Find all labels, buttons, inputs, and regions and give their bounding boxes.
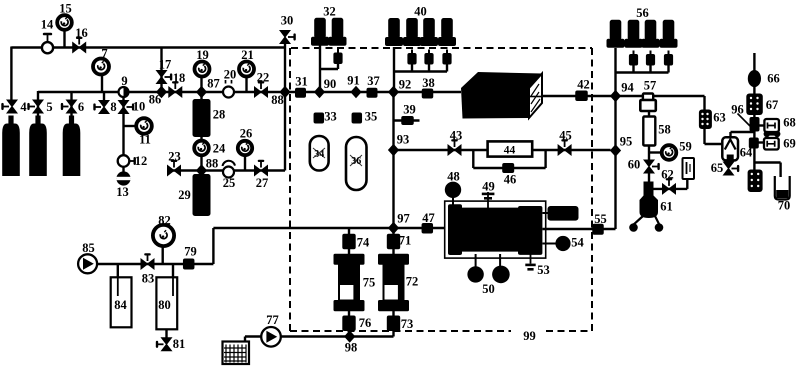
svg-text:56: 56 <box>636 6 649 20</box>
svg-text:55: 55 <box>594 212 607 226</box>
gauge 19 <box>195 62 210 77</box>
sample bottle 40a <box>385 18 403 46</box>
wire to beaker 70 <box>754 163 780 178</box>
dashed boundary box 99 <box>290 48 592 331</box>
gauge 7 <box>93 59 109 75</box>
svg-text:68: 68 <box>783 116 796 130</box>
svg-text:65: 65 <box>711 161 724 175</box>
svg-text:49: 49 <box>482 180 495 194</box>
wire right vent line <box>753 53 755 170</box>
svg-text:24: 24 <box>213 142 226 156</box>
drying column 58 <box>643 117 655 146</box>
bubbler 57 <box>640 94 656 112</box>
svg-text:31: 31 <box>295 75 308 89</box>
wire top header <box>11 46 285 48</box>
svg-text:70: 70 <box>778 199 791 213</box>
wire 64 outlet <box>731 132 755 139</box>
valve 4 <box>1 100 17 113</box>
svg-text:39: 39 <box>403 103 416 117</box>
svg-text:88: 88 <box>206 157 219 171</box>
gas cylinder 3 <box>63 116 81 177</box>
svg-text:94: 94 <box>621 81 634 95</box>
svg-text:86: 86 <box>149 93 162 107</box>
gauge 24 <box>194 141 209 156</box>
svg-text:75: 75 <box>363 276 376 290</box>
svg-text:35: 35 <box>365 110 378 124</box>
sample bottle 40d <box>438 18 456 46</box>
valve 10 <box>119 101 135 114</box>
svg-text:57: 57 <box>644 79 657 93</box>
node 87 <box>196 86 207 98</box>
wire trap-A stubs <box>348 228 350 337</box>
node 95 <box>610 144 621 156</box>
wire valve-8 stub <box>103 92 105 100</box>
valve 81 <box>156 338 172 351</box>
gauge 15 <box>57 15 72 30</box>
heater 51 <box>543 206 579 221</box>
valve 83 <box>141 253 154 269</box>
fitting 79 <box>183 259 195 270</box>
wire gauge-7 stub <box>101 74 103 92</box>
reaction cell 49b <box>445 201 546 258</box>
fitting 56f <box>646 51 655 66</box>
wire cell outlet <box>543 228 616 230</box>
svg-text:76: 76 <box>359 316 372 330</box>
svg-text:77: 77 <box>266 313 279 327</box>
svg-text:21: 21 <box>241 48 254 62</box>
trap 63 <box>699 110 712 130</box>
flask 34 <box>310 136 329 171</box>
node 86 <box>156 86 167 98</box>
wire trap-B stubs <box>392 228 394 337</box>
ground 53 <box>525 254 535 271</box>
sample bottle 32a <box>311 18 329 46</box>
water vessel 84 <box>111 277 132 327</box>
wire 69 stub <box>757 141 765 143</box>
wire lower sample line <box>168 169 285 171</box>
svg-text:96: 96 <box>731 103 744 117</box>
svg-text:16: 16 <box>75 26 88 40</box>
scrubber bottle <box>748 170 763 193</box>
regulator 14 <box>42 33 53 54</box>
fitting 37 <box>367 88 378 98</box>
feedthrough 49 <box>482 192 495 208</box>
fitting 40g <box>442 50 451 65</box>
valve 45 <box>558 139 571 155</box>
svg-text:37: 37 <box>367 74 380 88</box>
wire to pump 13 <box>122 166 124 173</box>
fitting 47 <box>422 223 434 234</box>
gas purifier 44 <box>488 141 533 156</box>
wire furnace outlet <box>530 95 705 97</box>
svg-text:22: 22 <box>257 71 270 85</box>
wire gauge-21 stub <box>245 76 247 92</box>
carrier bottle 56c <box>642 20 660 48</box>
valve 60 <box>644 160 660 173</box>
svg-text:58: 58 <box>658 123 671 137</box>
svg-text:59: 59 <box>679 140 692 154</box>
gauge 59 <box>662 145 677 160</box>
svg-text:30: 30 <box>281 14 294 28</box>
gas cylinder 1 <box>2 116 20 177</box>
wire column-28 link <box>200 92 202 142</box>
svg-text:92: 92 <box>399 78 412 92</box>
adsorption column 29 <box>193 174 211 216</box>
svg-text:42: 42 <box>577 78 590 92</box>
fitting 56g <box>664 51 673 66</box>
svg-text:25: 25 <box>223 176 236 190</box>
valve 17 <box>157 71 173 84</box>
beaker 70 <box>775 176 790 200</box>
svg-text:40: 40 <box>414 5 427 19</box>
node 90 <box>314 86 325 98</box>
svg-text:44: 44 <box>504 145 516 157</box>
svg-text:32: 32 <box>323 5 336 19</box>
wire 40-group drop <box>394 47 447 92</box>
svg-text:54: 54 <box>571 236 584 250</box>
flask 61 <box>629 182 663 232</box>
node 88b <box>279 86 290 98</box>
svg-text:90: 90 <box>324 77 337 91</box>
svg-text:19: 19 <box>196 48 209 62</box>
svg-text:73: 73 <box>401 317 414 331</box>
svg-text:10: 10 <box>133 100 146 114</box>
fitting 35 <box>352 113 363 124</box>
svg-text:60: 60 <box>628 158 641 172</box>
svg-text:61: 61 <box>660 200 673 214</box>
cold trap 74-76 <box>334 234 365 331</box>
gauge 26 <box>238 141 252 155</box>
wire valve-65 stub <box>729 160 731 164</box>
svg-text:29: 29 <box>178 188 191 202</box>
svg-text:85: 85 <box>82 241 95 255</box>
node 98 <box>344 330 355 342</box>
detector 68 <box>764 119 779 132</box>
fitting 46 <box>502 163 514 173</box>
pump 13 <box>116 171 130 185</box>
node 94 <box>610 90 621 102</box>
pump 85 <box>78 254 97 273</box>
svg-text:72: 72 <box>406 275 419 289</box>
svg-text:79: 79 <box>184 245 197 259</box>
svg-text:97: 97 <box>397 212 410 226</box>
filter 96 <box>738 114 760 132</box>
trap 67 <box>746 94 763 116</box>
gauge 11 <box>136 118 152 134</box>
seal 20 <box>223 80 234 98</box>
water vessel 80 <box>156 277 177 329</box>
svg-text:47: 47 <box>422 211 435 225</box>
valve 22 <box>255 81 268 97</box>
wire pump return line <box>97 228 394 296</box>
gauge 82 <box>153 225 174 246</box>
svg-text:80: 80 <box>158 298 171 312</box>
node 9 <box>119 87 129 97</box>
electrode 54 <box>543 236 571 251</box>
adsorption column 28 <box>193 99 211 137</box>
svg-text:82: 82 <box>158 214 171 228</box>
carrier bottle 56b <box>625 20 643 48</box>
fitting 55 <box>592 224 604 235</box>
svg-text:46: 46 <box>504 173 517 187</box>
valve 27 <box>255 160 268 176</box>
valve 6 <box>61 100 77 113</box>
node 97 <box>388 222 399 234</box>
svg-text:27: 27 <box>256 176 269 190</box>
node 91 <box>350 86 361 98</box>
pump 77 <box>261 327 281 347</box>
svg-text:67: 67 <box>766 98 779 112</box>
wire node-92 drop <box>392 92 394 228</box>
fitting 31 <box>295 88 306 98</box>
fitting 40f <box>424 50 433 65</box>
node 88 <box>196 164 207 176</box>
sample bottle 32b <box>329 18 347 46</box>
svg-text:17: 17 <box>159 58 172 72</box>
wire cell inlet <box>394 227 445 229</box>
electrode 48 <box>445 182 461 205</box>
wire main line <box>38 91 461 93</box>
bubbler jar 62b <box>683 158 695 179</box>
svg-text:99: 99 <box>523 329 536 343</box>
wire valve-6 drop <box>70 92 72 124</box>
svg-text:8: 8 <box>110 100 116 114</box>
electrode 50b <box>492 254 510 283</box>
svg-text:63: 63 <box>713 111 726 125</box>
svg-text:84: 84 <box>114 298 127 312</box>
valve 30 <box>280 31 296 44</box>
svg-text:38: 38 <box>422 76 435 90</box>
svg-text:26: 26 <box>240 127 253 141</box>
valve 5 <box>27 100 43 113</box>
cold trap 71-73 <box>378 234 409 331</box>
svg-text:43: 43 <box>450 129 463 143</box>
svg-text:4: 4 <box>20 100 27 114</box>
wire vent riser 30 <box>284 44 286 171</box>
svg-text:15: 15 <box>59 2 72 16</box>
svg-text:69: 69 <box>783 137 796 151</box>
svg-text:20: 20 <box>224 68 237 82</box>
wire gauge-19 stub <box>200 76 202 92</box>
carrier bottle 56d <box>660 20 678 48</box>
svg-text:83: 83 <box>142 272 155 286</box>
wire gauge-26 stub <box>244 155 246 171</box>
gas cylinder 2 <box>29 116 47 177</box>
svg-text:5: 5 <box>46 100 52 114</box>
wire gauge-11 stub <box>124 125 137 127</box>
wire valve-81 stub <box>165 329 167 339</box>
gauge 21 <box>239 62 254 77</box>
fitting 39 <box>401 116 414 125</box>
wire gauge-59 stub <box>649 151 662 153</box>
svg-text:45: 45 <box>559 129 572 143</box>
coupling 68b <box>764 131 781 137</box>
svg-text:62: 62 <box>661 168 674 182</box>
svg-text:23: 23 <box>168 150 181 164</box>
svg-text:50: 50 <box>482 282 495 296</box>
svg-text:13: 13 <box>116 185 129 199</box>
svg-text:71: 71 <box>399 234 412 248</box>
valve 23 <box>168 160 181 176</box>
svg-text:95: 95 <box>620 135 633 149</box>
fitting 33 <box>314 113 325 124</box>
svg-text:64: 64 <box>740 146 753 160</box>
separator 64 <box>722 137 738 160</box>
node 93 <box>388 144 399 156</box>
wire node-9 drop <box>122 92 124 156</box>
bulb 66 <box>748 70 761 87</box>
fitting 32c <box>333 49 342 64</box>
valve 16 <box>73 37 86 53</box>
svg-text:11: 11 <box>139 133 151 147</box>
valve 43 <box>448 139 461 155</box>
sample bottle 40c <box>420 18 438 46</box>
wire gauge-15 stub <box>63 29 65 48</box>
flask 36 <box>346 137 367 190</box>
fitting 96b <box>749 138 759 149</box>
svg-text:28: 28 <box>213 108 226 122</box>
regulator 12 <box>118 155 136 167</box>
svg-text:53: 53 <box>537 263 550 277</box>
wire fitting-39 stub <box>394 119 420 121</box>
fitting 56e <box>629 51 638 66</box>
wire 32-group drop <box>320 45 338 92</box>
wire bypass line <box>394 150 611 168</box>
svg-text:74: 74 <box>357 236 370 250</box>
fitting 38 <box>422 89 434 99</box>
valve 18 <box>169 81 182 97</box>
svg-text:14: 14 <box>41 18 54 32</box>
fitting 40e <box>407 50 416 65</box>
svg-text:9: 9 <box>121 74 127 88</box>
svg-text:33: 33 <box>324 110 337 124</box>
wire right riser <box>616 48 669 229</box>
wire valve-62 line <box>652 161 687 189</box>
seal 25 <box>223 161 236 178</box>
wire valve-17 branch <box>160 48 162 93</box>
sample bottle 40b <box>403 18 421 46</box>
fitting 42 <box>575 91 588 102</box>
svg-text:66: 66 <box>767 72 780 86</box>
svg-text:93: 93 <box>397 133 410 147</box>
detector 69 <box>764 138 779 150</box>
valve 8 <box>93 101 109 114</box>
electrode 50a <box>467 254 483 283</box>
valve 65 <box>724 162 740 175</box>
wire left riser <box>10 47 12 103</box>
wire 63 drop <box>705 96 724 144</box>
wire column-29 stub <box>200 171 202 177</box>
waste beaker 78 <box>223 342 250 365</box>
svg-text:7: 7 <box>101 47 107 61</box>
svg-text:81: 81 <box>173 337 186 351</box>
svg-text:18: 18 <box>173 71 186 85</box>
wire 57-58 link <box>648 110 650 183</box>
svg-text:98: 98 <box>345 341 358 355</box>
wire waste vent line <box>245 337 394 343</box>
furnace <box>461 72 542 119</box>
node 92 <box>388 86 399 98</box>
valve 62 <box>663 178 676 194</box>
wire gauge-24 link <box>200 142 202 171</box>
svg-text:91: 91 <box>347 74 360 88</box>
carrier bottle 56a <box>607 20 625 48</box>
svg-text:12: 12 <box>135 154 148 168</box>
svg-text:88: 88 <box>271 93 284 107</box>
svg-text:87: 87 <box>207 77 220 91</box>
wire 68 stub <box>757 124 765 126</box>
wire valve-5 drop <box>37 91 39 124</box>
svg-text:48: 48 <box>447 170 460 184</box>
svg-text:6: 6 <box>78 100 84 114</box>
